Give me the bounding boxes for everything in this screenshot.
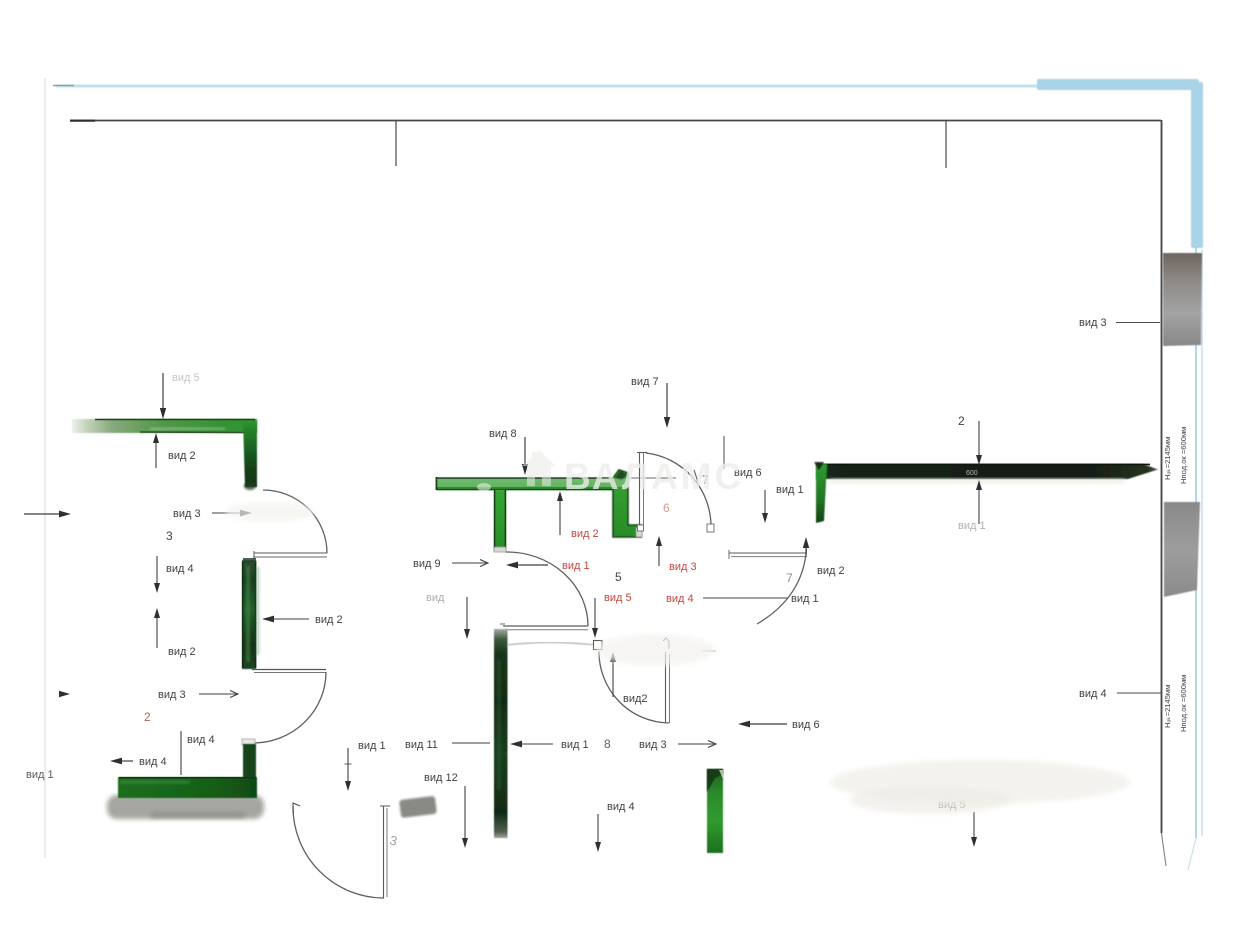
svg-text:2: 2 (958, 414, 965, 428)
faint wall line from W6 to door D5 (507, 643, 594, 646)
svg-text:8: 8 (604, 737, 611, 751)
up dim arrow + label вид 2 (156, 615, 158, 648)
lone arrowhead left (59, 691, 70, 697)
svg-text:вид 4: вид 4 (166, 563, 194, 575)
wall W2 side light green strip (257, 567, 260, 655)
watermark house icon (522, 450, 556, 486)
svg-text:вид 6: вид 6 (792, 719, 820, 731)
svg-text:вид 5: вид 5 (172, 372, 200, 384)
door D6 swing arc (646, 453, 711, 527)
svg-text:вид 1: вид 1 (562, 560, 590, 572)
door D7 up arrow (805, 545, 807, 556)
wall W2 vertical green (242, 560, 256, 669)
wall W3 shadow (107, 795, 264, 819)
door D3 swing arc (293, 807, 384, 898)
svg-text:вид 3: вид 3 (669, 561, 697, 573)
red label вид 2 with up arrow (559, 497, 561, 535)
svg-text:вид 1: вид 1 (26, 769, 54, 781)
svg-text:5: 5 (615, 570, 622, 584)
svg-text:вид: вид (426, 592, 445, 604)
wall W4 horizontal bar (436, 478, 625, 491)
svg-text:вид 4: вид 4 (607, 801, 635, 813)
svg-text:вид 9: вид 9 (413, 558, 441, 570)
wall W4 stem (494, 490, 506, 551)
svg-text:Hₒₖ=2145мм: Hₒₖ=2145мм (1163, 437, 1172, 480)
exterior wall blue thin right double line (1195, 246, 1197, 838)
svg-text:вид 4: вид 4 (1079, 688, 1107, 700)
door D3 jamb double line bottom-left (383, 806, 385, 898)
svg-text:Hпод.ок =600мм: Hпод.ок =600мм (1179, 427, 1188, 484)
svg-text:вид 3: вид 3 (639, 739, 667, 751)
faint dash near D5 foot (702, 650, 716, 652)
svg-text:вид 3: вид 3 (158, 689, 186, 701)
door D1 leaf lines (254, 552, 327, 554)
wall W5 left green strip (816, 464, 827, 523)
watermark text (564, 456, 744, 497)
wall W6 vertical green (center bottom) (494, 629, 508, 838)
door D1 swing arc (263, 490, 327, 553)
svg-text:7: 7 (786, 571, 793, 585)
svg-text:ВАЛАМС: ВАЛАМС (564, 456, 744, 497)
svg-text:вид 2: вид 2 (168, 450, 196, 462)
svg-text:вид 11: вид 11 (405, 739, 438, 751)
exterior wall blue thick band top-right (1037, 79, 1199, 90)
door D4 swing arc (506, 552, 588, 626)
svg-text:вид 2: вид 2 (817, 565, 845, 577)
svg-text:вид2: вид2 (623, 693, 648, 705)
svg-text:600: 600 (966, 470, 978, 477)
wall W3 vertical piece above (243, 744, 256, 778)
faint scan smudge bottom right (830, 760, 1130, 804)
svg-text:вид 3: вид 3 (1079, 317, 1107, 329)
window height annotation pair 1 (1163, 427, 1188, 484)
svg-text:вид 7: вид 7 (631, 376, 659, 388)
svg-text:вид 5: вид 5 (604, 592, 632, 604)
faint scan smudge center (595, 634, 715, 666)
svg-text:вид 4: вид 4 (187, 734, 215, 746)
wall W3 horizontal green bottom-left (118, 777, 257, 798)
window W-B on right wall (1164, 502, 1200, 597)
door D7 leaf lines (right middle) (729, 552, 807, 554)
label вид 2 with left arrow to W2 (271, 618, 309, 620)
svg-text:Hₒₖ=2145мм: Hₒₖ=2145мм (1163, 685, 1172, 728)
svg-text:вид 2: вид 2 (168, 646, 196, 658)
left page edge faint line (44, 78, 46, 858)
window height annotation pair 2 (1163, 675, 1188, 732)
svg-text:6: 6 (663, 501, 670, 515)
door D5 swing arc (599, 651, 669, 723)
inner wall dark right vertical line (1161, 120, 1163, 833)
door D3 hinge tick (293, 803, 300, 813)
svg-text:вид 8: вид 8 (489, 428, 517, 440)
svg-text:вид 1: вид 1 (561, 739, 589, 751)
red label вид 3 with up arrow (658, 542, 660, 566)
exterior wall blue thin top line (56, 84, 1040, 88)
wall W4 right Z piece (613, 470, 641, 537)
wall W7 vertical green (bottom right of center) (707, 769, 723, 853)
svg-text:2: 2 (144, 710, 151, 724)
wall tick mark left (395, 121, 397, 166)
door D6 jamb double line (upper middle) (639, 453, 641, 525)
svg-text:вид 1: вид 1 (776, 484, 804, 496)
door D7 swing arc (757, 549, 807, 624)
svg-text:вид 1: вид 1 (358, 740, 386, 752)
svg-text:вид 2: вид 2 (315, 614, 343, 626)
wall W1 horizontal top-left (72, 419, 257, 433)
door D2 lower jamb cap (242, 739, 255, 745)
door D5 jamb double line right (665, 652, 667, 723)
inner wall dark top line (70, 120, 1161, 122)
svg-text:вид 1: вид 1 (958, 520, 986, 532)
svg-text:вид 4: вид 4 (139, 756, 167, 768)
label вид 6 with drop line (723, 436, 725, 469)
door D4 leaf lines (below stem) (503, 625, 588, 627)
long entry arrow left (24, 513, 62, 515)
svg-text:3: 3 (166, 529, 173, 543)
label вид2 with up arrow (door D5) (612, 659, 614, 697)
door D2 swing arc (253, 672, 326, 743)
label вид 6 with left arrow (lower right) (746, 723, 787, 725)
pointer line through door D6 (630, 477, 676, 479)
svg-text:вид 4: вид 4 (666, 593, 694, 605)
number 7 with tick (door D6) (694, 470, 698, 482)
svg-text:вид 2: вид 2 (571, 528, 599, 540)
wall W5 right horizontal dark bar (816, 464, 1158, 479)
door D2 leaf line (252, 669, 326, 671)
wall W1 vertical part (243, 421, 257, 487)
door D5 jamb square (594, 641, 603, 650)
faint scan smudge left (225, 502, 315, 522)
wall tick mark right (945, 121, 947, 168)
svg-text:Hпод.ок =600мм: Hпод.ок =600мм (1179, 675, 1188, 732)
window W-A on right wall (1163, 253, 1202, 346)
svg-text:вид 12: вид 12 (424, 772, 458, 784)
svg-text:вид 1: вид 1 (791, 593, 819, 605)
label вид 5 faded top-left with down arrow (172, 372, 200, 384)
svg-text:вид 3: вид 3 (173, 508, 201, 520)
watermark band over W4 bar (437, 479, 630, 488)
smudge block right of D3 (399, 796, 437, 818)
exterior wall blue thick band right vertical (1191, 82, 1203, 248)
right wall bottom taper (1162, 833, 1167, 866)
